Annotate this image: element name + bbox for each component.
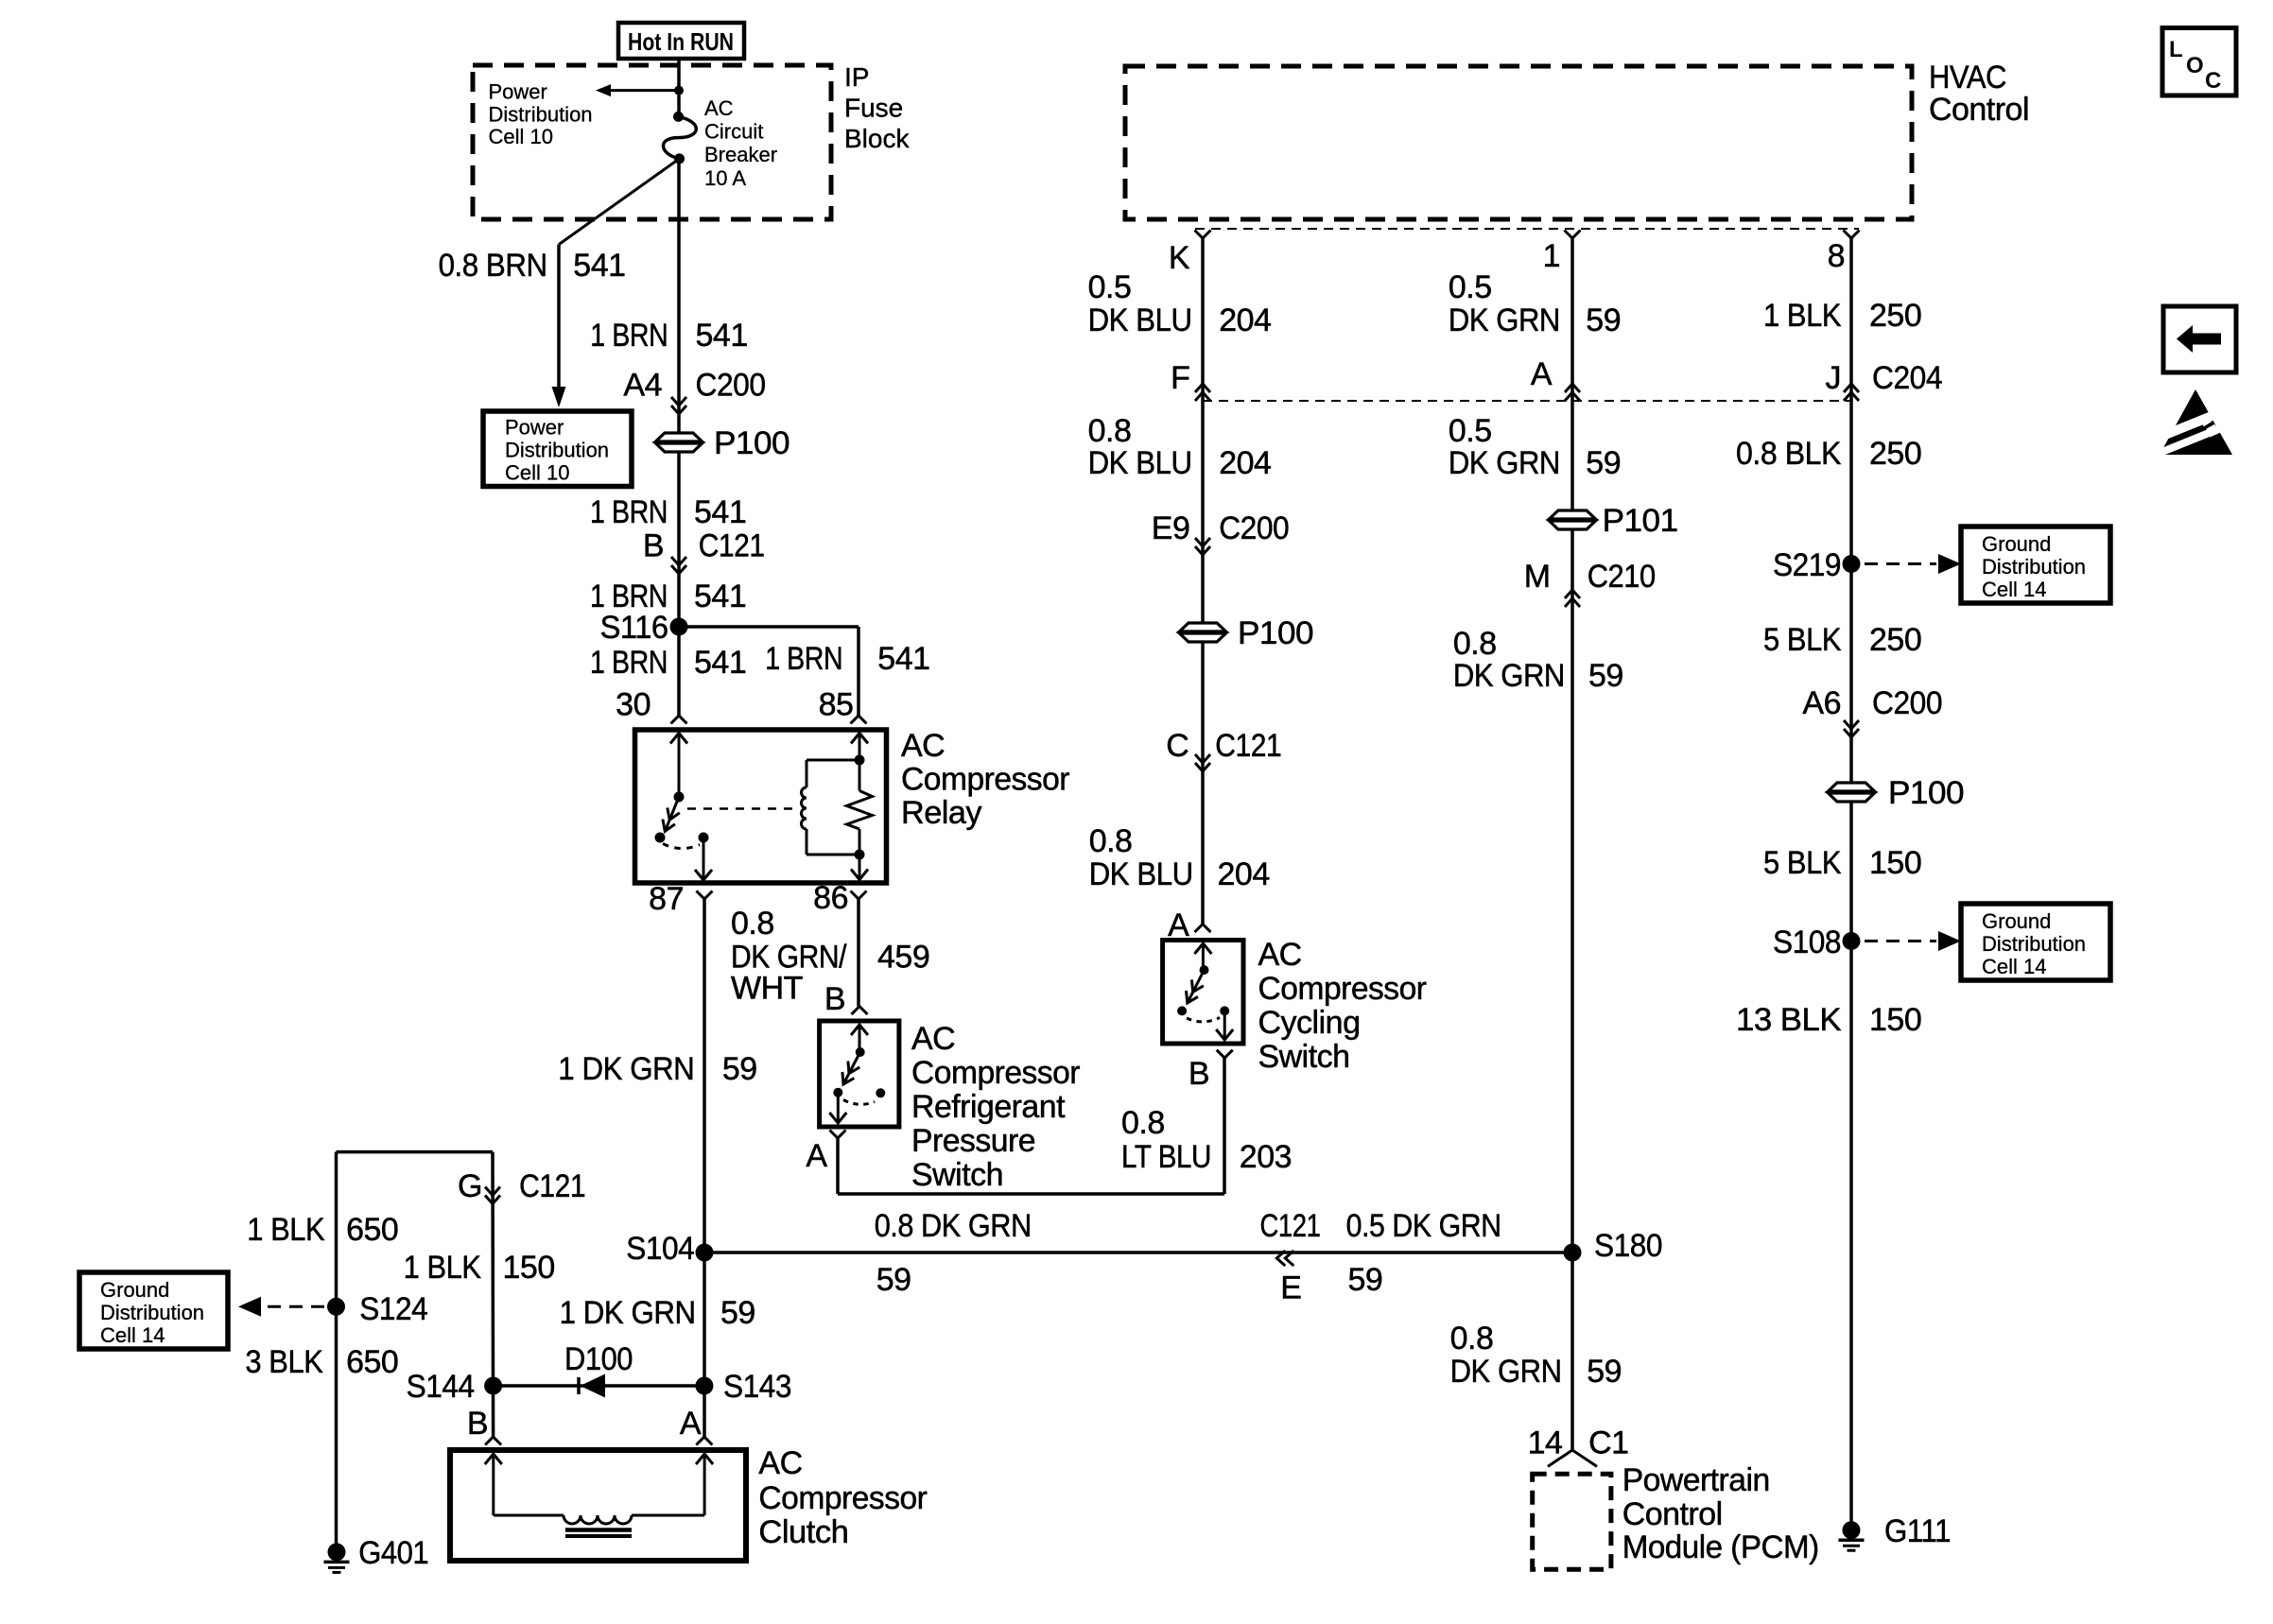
- svg-text:G: G: [458, 1168, 482, 1204]
- svg-text:AC: AC: [911, 1021, 955, 1057]
- svg-text:541: 541: [694, 579, 746, 614]
- svg-text:0.5: 0.5: [1449, 413, 1492, 449]
- svg-text:Distribution: Distribution: [505, 439, 609, 462]
- wire S144 to S143 with diode D100: [494, 1384, 704, 1388]
- Power Distribution Cell 10 box: [483, 411, 632, 487]
- svg-text:250: 250: [1869, 436, 1921, 472]
- svg-text:Distribution: Distribution: [1982, 555, 2086, 579]
- svg-text:5 BLK: 5 BLK: [1763, 622, 1842, 658]
- svg-text:B: B: [1189, 1056, 1209, 1092]
- svg-text:Compressor: Compressor: [758, 1480, 927, 1516]
- svg-text:0.8: 0.8: [1453, 626, 1497, 662]
- svg-text:1 BRN: 1 BRN: [590, 494, 668, 530]
- svg-text:AC: AC: [1258, 937, 1302, 973]
- svg-text:C200: C200: [1219, 510, 1289, 546]
- svg-text:250: 250: [1869, 298, 1921, 334]
- svg-text:AC: AC: [758, 1445, 802, 1481]
- svg-text:85: 85: [819, 687, 854, 723]
- svg-text:150: 150: [503, 1250, 555, 1286]
- svg-text:541: 541: [877, 641, 929, 677]
- svg-text:Hot In RUN: Hot In RUN: [628, 27, 734, 56]
- svg-text:87: 87: [649, 881, 684, 917]
- svg-text:C200: C200: [1872, 685, 1942, 721]
- svg-text:Cycling: Cycling: [1258, 1005, 1361, 1041]
- dashed reference link S108 to Ground Distribution: [1865, 940, 1936, 942]
- svg-text:G111: G111: [1884, 1513, 1951, 1549]
- svg-text:59: 59: [1348, 1262, 1383, 1298]
- wire 1 BRN 541 to C121: [677, 453, 681, 716]
- svg-text:S143: S143: [723, 1369, 791, 1405]
- svg-text:Cell 14: Cell 14: [1982, 578, 2046, 601]
- svg-text:Refrigerant: Refrigerant: [911, 1089, 1066, 1125]
- svg-text:0.5 DK GRN: 0.5 DK GRN: [1346, 1208, 1501, 1244]
- Ground Distribution Cell 14 box (lower right): [1961, 904, 2110, 980]
- svg-text:Module (PCM): Module (PCM): [1622, 1529, 1819, 1565]
- svg-text:DK BLU: DK BLU: [1088, 445, 1192, 481]
- svg-text:Block: Block: [844, 124, 910, 153]
- splice S116: [670, 618, 688, 636]
- wire 1 DK GRN 59 from S104 to S143 and clutch pin A: [703, 1253, 706, 1437]
- svg-text:DK GRN: DK GRN: [1449, 445, 1560, 481]
- svg-text:Ground: Ground: [100, 1278, 169, 1302]
- svg-text:C: C: [2205, 68, 2221, 94]
- svg-text:1: 1: [1543, 238, 1560, 274]
- inline connector P100 left column: [656, 433, 703, 452]
- svg-text:L: L: [2169, 37, 2183, 62]
- svg-text:S219: S219: [1773, 547, 1841, 583]
- svg-text:Ground: Ground: [1982, 532, 2051, 556]
- Hot In RUN power source box: [618, 23, 744, 59]
- inline connector P101: [1550, 510, 1596, 529]
- svg-text:Cell 10: Cell 10: [489, 125, 553, 148]
- svg-text:B: B: [824, 981, 845, 1017]
- wire from Hot In RUN into IP Fuse Block: [677, 59, 681, 116]
- svg-text:A: A: [806, 1138, 827, 1174]
- svg-text:B: B: [467, 1406, 488, 1442]
- svg-text:S124: S124: [359, 1291, 427, 1327]
- svg-text:1 DK GRN: 1 DK GRN: [558, 1051, 694, 1087]
- svg-text:Control: Control: [1929, 92, 2029, 128]
- svg-text:250: 250: [1869, 622, 1921, 658]
- ground G401: [328, 1543, 346, 1561]
- svg-text:S116: S116: [600, 610, 668, 646]
- svg-text:Cell 14: Cell 14: [1982, 955, 2046, 978]
- svg-text:Switch: Switch: [1258, 1039, 1350, 1075]
- svg-text:59: 59: [1586, 445, 1621, 481]
- wire 0.5 DK GRN 59 (middle column): [1570, 238, 1574, 511]
- svg-text:J: J: [1826, 360, 1842, 396]
- splice S124: [327, 1298, 345, 1316]
- svg-text:150: 150: [1869, 1002, 1921, 1038]
- svg-text:S104: S104: [626, 1231, 694, 1267]
- svg-text:Switch: Switch: [911, 1157, 1003, 1193]
- Ground Distribution Cell 14 box (upper right): [1961, 527, 2110, 603]
- pressure switch internals: [829, 1025, 885, 1123]
- LOC reference icon: [2162, 28, 2236, 96]
- dashed reference link S219 to Ground Distribution: [1865, 562, 1936, 565]
- svg-text:Ground: Ground: [1982, 909, 2051, 933]
- svg-text:Distribution: Distribution: [489, 102, 593, 126]
- relay internal coil and resistor: [802, 734, 873, 880]
- Ground Distribution Cell 14 box (left): [79, 1272, 228, 1349]
- svg-text:S108: S108: [1773, 924, 1841, 960]
- svg-text:541: 541: [696, 318, 748, 354]
- svg-text:650: 650: [346, 1212, 398, 1248]
- svg-text:WHT: WHT: [731, 971, 803, 1007]
- wire 0.5 DK BLU 204 (K column): [1201, 238, 1205, 623]
- svg-text:A: A: [1531, 356, 1553, 392]
- svg-text:Circuit: Circuit: [704, 120, 763, 144]
- svg-text:AC: AC: [901, 728, 945, 764]
- splice S108: [1843, 932, 1861, 950]
- svg-text:59: 59: [876, 1262, 911, 1298]
- svg-text:P100: P100: [1888, 775, 1964, 811]
- wire 1 DK GRN 59 from relay 87 to S104: [703, 899, 706, 1253]
- relay internal switch (pin 30 to 87): [655, 734, 713, 881]
- svg-text:P101: P101: [1603, 503, 1678, 539]
- svg-text:1 BRN: 1 BRN: [590, 318, 668, 354]
- Powertrain Control Module dashed box: [1533, 1474, 1611, 1569]
- svg-text:13 BLK: 13 BLK: [1736, 1002, 1842, 1038]
- AC Compressor Refrigerant Pressure Switch box: [820, 1021, 899, 1127]
- svg-text:204: 204: [1219, 445, 1271, 481]
- svg-text:Compressor: Compressor: [911, 1055, 1080, 1091]
- svg-text:Pressure: Pressure: [911, 1123, 1035, 1159]
- svg-text:B: B: [643, 528, 664, 564]
- svg-text:1 BLK: 1 BLK: [404, 1250, 482, 1286]
- svg-text:DK BLU: DK BLU: [1088, 302, 1192, 338]
- wire 1 BLK 250 (right column): [1849, 238, 1853, 784]
- svg-text:Compressor: Compressor: [1258, 971, 1427, 1007]
- wire 0.8 DK GRN 59 from S104 to S180: [704, 1251, 1572, 1254]
- svg-text:Power: Power: [489, 80, 547, 104]
- IP Fuse Block dashed box: [473, 65, 831, 219]
- svg-text:S144: S144: [407, 1369, 475, 1405]
- inline connector P100 (K column): [1180, 623, 1226, 642]
- inline connector P100 (right column): [1829, 783, 1875, 802]
- svg-text:C121: C121: [519, 1168, 585, 1204]
- svg-text:204: 204: [1219, 302, 1271, 338]
- svg-text:1 BRN: 1 BRN: [765, 641, 842, 677]
- svg-text:541: 541: [694, 645, 746, 681]
- AC Compressor Cycling Switch box: [1163, 941, 1243, 1045]
- svg-text:DK GRN: DK GRN: [1450, 1354, 1562, 1390]
- svg-text:Distribution: Distribution: [1982, 932, 2086, 956]
- svg-text:0.5: 0.5: [1088, 269, 1132, 305]
- wire 1 BLK 650 branch top: [337, 1150, 494, 1154]
- svg-text:E9: E9: [1152, 510, 1190, 546]
- svg-text:1 BLK: 1 BLK: [247, 1212, 325, 1248]
- wire branch S116 to relay pin 85: [679, 625, 859, 629]
- svg-text:59: 59: [1587, 1354, 1622, 1390]
- svg-text:K: K: [1169, 240, 1190, 276]
- svg-text:A: A: [680, 1406, 702, 1442]
- svg-text:C121: C121: [1260, 1208, 1321, 1244]
- svg-text:LT BLU: LT BLU: [1121, 1139, 1211, 1175]
- svg-text:S180: S180: [1594, 1228, 1662, 1264]
- svg-text:G401: G401: [358, 1535, 428, 1571]
- AC Compressor Clutch box: [450, 1450, 746, 1561]
- svg-text:O: O: [2186, 53, 2204, 78]
- svg-text:C121: C121: [699, 528, 765, 564]
- clutch coil internals: [485, 1454, 713, 1536]
- svg-text:F: F: [1171, 360, 1189, 396]
- svg-text:Relay: Relay: [901, 795, 981, 831]
- svg-text:C121: C121: [1215, 728, 1281, 764]
- svg-text:Fuse: Fuse: [844, 94, 903, 123]
- ESD static sensitive icon: [2150, 389, 2241, 458]
- svg-text:Powertrain: Powertrain: [1622, 1462, 1770, 1498]
- svg-text:DK BLU: DK BLU: [1089, 856, 1193, 892]
- wire 0.8 BRN 541 branch (diagonal + drop arrow to Power Distribution): [559, 159, 680, 245]
- svg-text:Clutch: Clutch: [758, 1514, 848, 1550]
- svg-text:M: M: [1524, 559, 1551, 595]
- svg-text:0.8 BLK: 0.8 BLK: [1736, 436, 1842, 472]
- svg-text:8: 8: [1828, 238, 1845, 274]
- svg-text:1 BLK: 1 BLK: [1763, 298, 1842, 334]
- svg-text:0.5: 0.5: [1449, 269, 1492, 305]
- svg-text:Cell 14: Cell 14: [100, 1323, 165, 1347]
- svg-text:A6: A6: [1802, 685, 1841, 721]
- svg-text:30: 30: [616, 687, 651, 723]
- svg-text:Power: Power: [505, 416, 564, 440]
- svg-text:86: 86: [813, 880, 848, 916]
- svg-text:650: 650: [346, 1344, 398, 1380]
- svg-text:1 DK GRN: 1 DK GRN: [560, 1295, 696, 1331]
- svg-text:DK GRN: DK GRN: [1449, 302, 1560, 338]
- svg-text:C1: C1: [1588, 1425, 1628, 1461]
- connector C204 dashed line: [1203, 400, 1851, 402]
- svg-text:1 BRN: 1 BRN: [590, 645, 668, 681]
- svg-text:541: 541: [573, 248, 625, 284]
- svg-text:0.8: 0.8: [1121, 1105, 1165, 1141]
- splice S219: [1843, 555, 1861, 573]
- svg-text:C210: C210: [1588, 559, 1656, 595]
- svg-text:0.8 DK GRN: 0.8 DK GRN: [875, 1208, 1032, 1244]
- svg-text:Distribution: Distribution: [100, 1301, 204, 1324]
- AC Compressor Relay box: [635, 730, 887, 883]
- svg-text:59: 59: [720, 1295, 755, 1331]
- svg-text:0.8: 0.8: [1088, 413, 1132, 449]
- svg-text:3 BLK: 3 BLK: [245, 1344, 323, 1380]
- svg-text:0.8: 0.8: [731, 906, 774, 942]
- back arrow icon: [2163, 306, 2236, 372]
- svg-text:10 A: 10 A: [704, 166, 746, 190]
- svg-text:459: 459: [877, 940, 929, 976]
- svg-text:0.8: 0.8: [1089, 823, 1133, 859]
- svg-text:P100: P100: [1238, 615, 1313, 651]
- svg-text:A4: A4: [623, 368, 662, 404]
- svg-text:HVAC: HVAC: [1929, 60, 2006, 95]
- svg-text:C204: C204: [1872, 360, 1942, 396]
- svg-text:14: 14: [1528, 1425, 1563, 1461]
- dashed reference link to S124: [238, 1297, 261, 1317]
- HVAC Control dashed box: [1125, 66, 1912, 219]
- svg-text:C200: C200: [696, 368, 766, 404]
- ground G111: [1843, 1521, 1861, 1539]
- relay internal dashed actuation link: [687, 807, 799, 810]
- cycling switch internals: [1177, 943, 1233, 1040]
- svg-text:Control: Control: [1622, 1496, 1723, 1532]
- svg-text:Breaker: Breaker: [704, 143, 777, 166]
- svg-text:D100: D100: [564, 1341, 633, 1377]
- svg-text:DK GRN: DK GRN: [1453, 658, 1565, 694]
- wire 1 BRN 541 from breaker down: [677, 159, 681, 433]
- svg-text:E: E: [1280, 1270, 1301, 1306]
- svg-text:5 BLK: 5 BLK: [1763, 845, 1842, 881]
- svg-text:541: 541: [694, 494, 746, 530]
- svg-text:P100: P100: [714, 425, 789, 461]
- svg-text:Compressor: Compressor: [901, 762, 1069, 798]
- svg-text:59: 59: [1588, 658, 1623, 694]
- wire 0.8 DK GRN/WHT 459 from relay 86: [857, 899, 860, 1007]
- splice S143: [695, 1377, 713, 1395]
- svg-text:59: 59: [1586, 302, 1621, 338]
- svg-text:C: C: [1166, 728, 1189, 764]
- svg-text:0.8 BRN: 0.8 BRN: [439, 248, 547, 284]
- wire from pressure switch A to cycling switch B: [836, 1138, 840, 1194]
- svg-text:204: 204: [1218, 856, 1270, 892]
- AC Circuit Breaker 10A symbol: [673, 112, 684, 122]
- HVAC connector face dashed line: [1195, 228, 1859, 230]
- splice S144: [484, 1377, 502, 1395]
- svg-text:150: 150: [1869, 845, 1921, 881]
- splice S104: [696, 1244, 714, 1262]
- svg-text:Cell 10: Cell 10: [505, 461, 569, 485]
- svg-text:IP: IP: [844, 62, 869, 92]
- svg-text:203: 203: [1240, 1139, 1292, 1175]
- junction node on feed wire: [674, 86, 684, 95]
- svg-text:59: 59: [722, 1051, 757, 1087]
- svg-text:AC: AC: [704, 96, 734, 120]
- splice S180: [1564, 1244, 1582, 1262]
- feed arrow to Power Distribution inside fuse block: [609, 89, 680, 92]
- svg-text:0.8: 0.8: [1450, 1321, 1494, 1356]
